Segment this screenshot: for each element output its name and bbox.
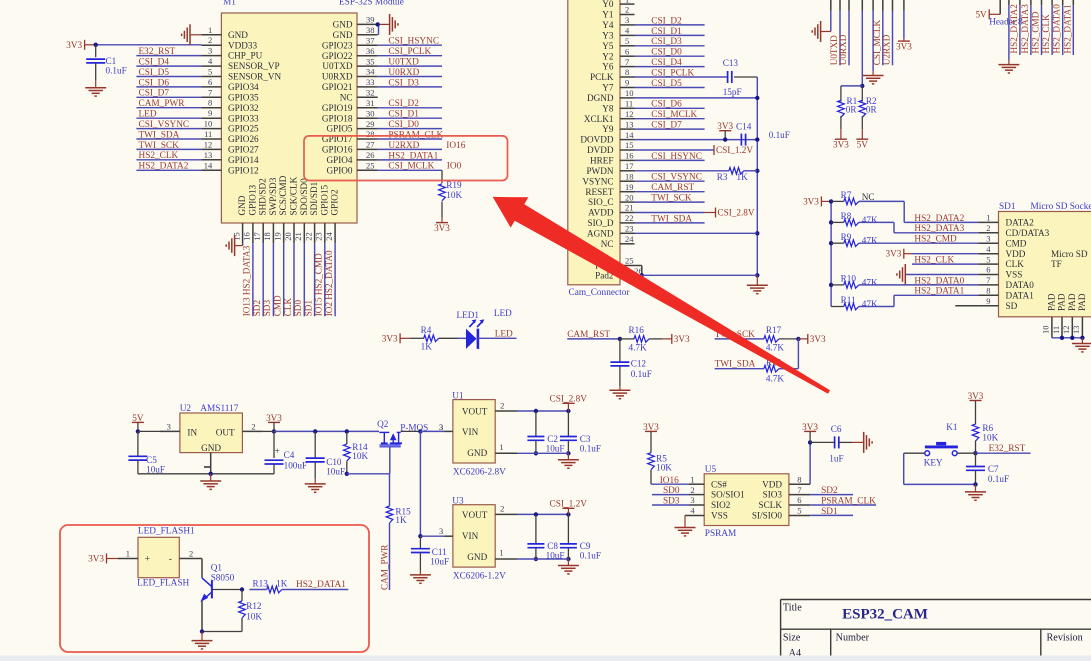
svg-text:DATA2: DATA2 [1006, 218, 1035, 228]
node junction 5V/C5 [136, 429, 140, 433]
svg-text:LED: LED [494, 308, 512, 318]
wire ground bus under U2 [138, 473, 274, 475]
transistor Q2 P-MOS [377, 419, 443, 474]
node junction C12 [618, 337, 622, 341]
svg-text:7: 7 [625, 57, 629, 67]
svg-text:CMD: CMD [273, 295, 283, 316]
svg-text:C13: C13 [723, 58, 739, 68]
svg-text:4: 4 [208, 56, 213, 66]
svg-text:U2RXD: U2RXD [882, 34, 892, 65]
svg-text:10: 10 [204, 119, 213, 129]
node junction R17/R18 [796, 337, 800, 341]
svg-text:CSI_D1: CSI_D1 [651, 27, 682, 37]
node junction C10 [313, 429, 317, 433]
svg-text:1K: 1K [395, 515, 407, 525]
wire CAM_RST [567, 330, 620, 340]
svg-text:CS#: CS# [711, 479, 727, 489]
power 3V3 at camera DOVDD [717, 121, 733, 142]
node junction K1 [973, 451, 977, 455]
node junction Q1 base [240, 587, 244, 591]
capacitor C9 0.1uF [560, 514, 601, 560]
node junction U5 vdd [808, 440, 812, 444]
svg-text:GND: GND [201, 443, 221, 453]
svg-text:3: 3 [986, 233, 990, 243]
svg-text:35: 35 [366, 56, 375, 66]
svg-text:DGND: DGND [587, 93, 614, 103]
svg-text:3V3: 3V3 [810, 334, 826, 344]
svg-text:U2: U2 [180, 404, 192, 414]
svg-text:SENSOR_VP: SENSOR_VP [228, 61, 280, 71]
svg-text:7: 7 [797, 485, 801, 495]
node junctions U1 out [534, 409, 571, 456]
stub SD pin9 [955, 305, 978, 307]
svg-text:U3: U3 [452, 497, 464, 507]
svg-text:3V3: 3V3 [266, 413, 282, 423]
svg-text:47K: 47K [862, 299, 878, 309]
svg-text:HS2_CLK: HS2_CLK [139, 151, 179, 161]
svg-text:3V3: 3V3 [885, 249, 901, 259]
svg-text:5: 5 [208, 67, 212, 77]
svg-text:R7: R7 [841, 190, 852, 200]
svg-text:30: 30 [366, 108, 375, 118]
capacitor C5 10uF [128, 431, 165, 474]
ground at M1 pin15 [226, 235, 242, 256]
ground below C10 [305, 478, 326, 492]
M1 left pin names and numbers [201, 25, 281, 176]
svg-text:16: 16 [625, 151, 634, 161]
svg-text:10K: 10K [446, 190, 462, 200]
svg-text:PAD: PAD [1057, 293, 1067, 311]
svg-text:Micro SD Socket: Micro SD Socket [1031, 202, 1091, 212]
svg-text:CSI_2.8V: CSI_2.8V [718, 208, 755, 218]
svg-text:6: 6 [625, 46, 629, 56]
svg-text:3V3: 3V3 [434, 223, 450, 233]
svg-text:PAD: PAD [1067, 293, 1077, 311]
svg-text:GND: GND [237, 195, 247, 215]
wires bottom net labels of M1 [242, 243, 335, 316]
wire SD1 [810, 507, 853, 517]
svg-text:Y2: Y2 [602, 51, 614, 61]
svg-text:19: 19 [625, 182, 634, 192]
svg-text:CAM_PWR: CAM_PWR [379, 544, 389, 590]
svg-text:HS2_DATA1: HS2_DATA1 [1062, 4, 1072, 54]
svg-text:3V3: 3V3 [968, 391, 984, 401]
svg-text:3V3: 3V3 [896, 41, 912, 51]
svg-text:HS2_DATA2: HS2_DATA2 [139, 162, 189, 172]
resistor R11 47K [831, 287, 978, 310]
resistor R6 10K [972, 404, 998, 453]
svg-text:GPIO18: GPIO18 [322, 113, 353, 123]
resistor R1 0R [838, 86, 863, 129]
svg-text:0.1uF: 0.1uF [631, 369, 652, 379]
svg-text:CSI_D3: CSI_D3 [651, 37, 682, 47]
svg-text:Y4: Y4 [602, 20, 614, 30]
svg-text:VOUT: VOUT [462, 407, 488, 417]
power 5V at U2 input [132, 421, 144, 423]
svg-text:10K: 10K [246, 612, 262, 622]
wire AGND pin23 [635, 232, 758, 234]
svg-text:HS2_CLK: HS2_CLK [914, 256, 954, 266]
svg-text:Y8: Y8 [602, 103, 614, 113]
svg-text:4: 4 [690, 506, 695, 516]
svg-text:HS2_DATA2: HS2_DATA2 [1009, 4, 1019, 54]
svg-text:7: 7 [986, 275, 990, 285]
svg-text:R10: R10 [841, 274, 857, 284]
svg-text:CLK: CLK [1006, 259, 1025, 269]
wire pad gnd bus [1052, 336, 1085, 340]
svg-text:1K: 1K [421, 342, 433, 352]
svg-text:SD2: SD2 [821, 486, 838, 496]
svg-text:TWI_SDA: TWI_SDA [715, 360, 756, 370]
svg-text:4.7K: 4.7K [766, 342, 784, 352]
svg-text:SCK/CLK: SCK/CLK [289, 176, 299, 215]
ground at header wire1 [812, 21, 831, 42]
svg-text:0.1uF: 0.1uF [988, 474, 1009, 484]
svg-text:39: 39 [366, 15, 375, 25]
svg-text:GND: GND [467, 448, 487, 458]
svg-text:3V3: 3V3 [66, 40, 82, 50]
ground at header wire5 [863, 71, 884, 84]
pushbutton K1 KEY [904, 422, 976, 467]
power 3V3 below R1 [835, 138, 847, 140]
wire E32_RST [976, 444, 1031, 454]
wires header8 verticals [1009, 0, 1073, 60]
svg-text:LED_FLASH: LED_FLASH [137, 578, 189, 588]
svg-text:Y6: Y6 [602, 62, 614, 72]
svg-text:3V3: 3V3 [833, 139, 849, 149]
svg-text:KEY: KEY [924, 457, 943, 467]
ground right of C6 [863, 432, 865, 453]
svg-text:29: 29 [366, 119, 375, 129]
svg-text:GPIO34: GPIO34 [228, 82, 259, 92]
svg-text:3V3: 3V3 [88, 554, 104, 564]
svg-text:HS2_DATA0: HS2_DATA0 [914, 276, 964, 286]
svg-text:CSI_D4: CSI_D4 [651, 58, 682, 68]
svg-text:GPIO0: GPIO0 [326, 165, 352, 175]
svg-text:9: 9 [208, 108, 212, 118]
svg-text:SENSOR_VN: SENSOR_VN [228, 72, 281, 82]
ground below C12 [609, 386, 630, 399]
svg-text:GND: GND [333, 30, 353, 40]
capacitor C2 10uF [527, 411, 564, 454]
svg-text:VDD33: VDD33 [228, 40, 257, 50]
wire Pad pins 25/26 [635, 266, 758, 278]
svg-text:0R: 0R [866, 105, 878, 115]
svg-text:SD1: SD1 [999, 202, 1016, 212]
ground at SD VSS [897, 264, 979, 285]
ground at M1 pin1 [182, 24, 202, 45]
wire PSRAM_CLK [810, 497, 876, 507]
svg-text:R12: R12 [246, 601, 262, 611]
svg-text:C12: C12 [631, 359, 647, 369]
resistor R2 0R [859, 86, 877, 129]
svg-text:1: 1 [208, 25, 212, 35]
svg-text:HS2_CMD: HS2_CMD [914, 235, 957, 245]
svg-text:CSI_VSYNC: CSI_VSYNC [139, 120, 190, 130]
svg-text:2: 2 [500, 504, 504, 514]
svg-text:C8: C8 [547, 541, 558, 551]
svg-text:CAM_PWR: CAM_PWR [139, 99, 186, 109]
svg-text:15: 15 [625, 140, 634, 150]
svg-text:12: 12 [204, 139, 213, 149]
svg-text:1: 1 [126, 548, 130, 558]
svg-text:M1: M1 [223, 0, 236, 8]
svg-text:TWI_SCK: TWI_SCK [139, 141, 180, 151]
svg-text:-: - [169, 555, 172, 565]
svg-text:C7: C7 [988, 464, 999, 474]
svg-text:Number: Number [836, 633, 870, 644]
svg-text:GPIO4: GPIO4 [326, 155, 352, 165]
regulator U1 XC6206-2.8V body [439, 392, 517, 478]
svg-text:10K: 10K [982, 433, 998, 443]
svg-text:SIO3: SIO3 [763, 490, 783, 500]
wire HS2_CLK [912, 256, 978, 266]
svg-text:SO/SIO1: SO/SIO1 [711, 490, 745, 500]
svg-text:3V3: 3V3 [643, 422, 659, 432]
svg-text:HS2_DATA3: HS2_DATA3 [914, 224, 964, 234]
svg-text:GPIO35: GPIO35 [228, 92, 259, 102]
svg-text:CSI_D6: CSI_D6 [651, 100, 682, 110]
svg-text:1uF: 1uF [829, 454, 843, 464]
svg-text:S8050: S8050 [211, 572, 235, 582]
svg-text:R4: R4 [421, 325, 432, 335]
svg-text:ESP-32S Module: ESP-32S Module [339, 0, 404, 8]
ground below C3 [558, 453, 579, 468]
svg-text:22: 22 [303, 232, 313, 241]
LED LED1 [457, 308, 513, 349]
svg-text:U0TXD: U0TXD [322, 61, 352, 71]
svg-text:IO16: IO16 [446, 141, 465, 151]
resistor R18 4.7K [764, 339, 799, 384]
svg-text:AVDD: AVDD [588, 208, 614, 218]
resistor R17 4.7K [764, 325, 799, 352]
svg-text:GPIO2: GPIO2 [330, 189, 340, 215]
wires programming header verticals [831, 0, 904, 86]
svg-text:Y3: Y3 [602, 31, 614, 41]
svg-text:LED: LED [495, 330, 513, 340]
node junction R14 bottom [345, 472, 349, 476]
svg-text:GPIO21: GPIO21 [322, 82, 353, 92]
svg-text:GPIO32: GPIO32 [228, 103, 259, 113]
svg-text:E32_RST: E32_RST [139, 47, 176, 57]
svg-text:TWI_SCK: TWI_SCK [651, 194, 692, 204]
svg-text:6: 6 [986, 265, 990, 275]
svg-text:1K: 1K [276, 578, 288, 588]
ground at U5 VSS [675, 515, 696, 536]
svg-text:23: 23 [625, 224, 634, 234]
svg-text:32: 32 [366, 88, 375, 98]
svg-text:PWDN: PWDN [586, 166, 613, 176]
svg-text:17: 17 [625, 161, 634, 171]
svg-text:R8: R8 [841, 211, 852, 221]
svg-text:5: 5 [986, 254, 990, 264]
resistor R8 47K [831, 211, 978, 234]
svg-text:SIO_D: SIO_D [587, 218, 613, 228]
wire drain to U3 VIN [419, 431, 421, 536]
svg-text:1K: 1K [737, 172, 749, 182]
svg-text:3V3: 3V3 [717, 121, 733, 131]
svg-text:CSI_D5: CSI_D5 [139, 68, 170, 78]
svg-text:HS2_DATA3: HS2_DATA3 [1020, 4, 1030, 54]
svg-text:SCLK: SCLK [759, 500, 783, 510]
power 3V3 at K1 [970, 400, 982, 402]
node junctions U3 out [534, 512, 571, 561]
capacitor C3 0.1uF [560, 411, 601, 454]
capacitor C4 100uF polarized [265, 431, 308, 473]
svg-text:GND: GND [333, 20, 353, 30]
svg-text:13: 13 [204, 150, 213, 160]
svg-text:SWP/SD3: SWP/SD3 [268, 177, 278, 215]
wire TWI_SCK [715, 330, 764, 340]
wire TWI_SDA [715, 360, 764, 370]
camera connector P2 body [568, 0, 620, 285]
svg-text:22: 22 [625, 213, 634, 223]
svg-text:10uF: 10uF [546, 444, 565, 454]
regulator U2 AMS1117 body [160, 404, 262, 474]
wire U3 GND bus [517, 558, 568, 560]
svg-text:C2: C2 [547, 434, 558, 444]
svg-text:R16: R16 [629, 325, 645, 335]
svg-text:1: 1 [690, 474, 694, 484]
node junction Q2 drain [418, 429, 422, 433]
svg-text:HS2_DATA1: HS2_DATA1 [914, 287, 964, 297]
svg-text:10: 10 [1041, 326, 1051, 335]
svg-text:Title: Title [783, 603, 802, 614]
svg-text:3V3: 3V3 [674, 334, 690, 344]
svg-text:VSYNC: VSYNC [582, 176, 613, 186]
svg-text:15: 15 [231, 232, 241, 241]
power 5V below R2 [856, 138, 868, 140]
svg-text:+: + [145, 555, 150, 565]
LED_FLASH1 body [118, 527, 202, 589]
svg-text:Revision: Revision [1047, 633, 1083, 644]
red highlight box around GPIO17/16/4/0 [304, 136, 508, 181]
svg-text:VIN: VIN [462, 427, 479, 437]
power 3V3 at U2 output [268, 421, 280, 423]
svg-text:2: 2 [690, 485, 694, 495]
resistor R10 47K [831, 274, 978, 289]
svg-text:CSI_D5: CSI_D5 [651, 79, 682, 89]
svg-text:GPIO26: GPIO26 [228, 134, 259, 144]
svg-text:CSI_MCLK: CSI_MCLK [651, 110, 697, 120]
ground below camera bus [747, 275, 768, 293]
svg-text:C10: C10 [326, 457, 342, 467]
svg-text:23: 23 [314, 232, 324, 241]
resistor R13 1K [249, 578, 348, 592]
svg-text:GPIO13: GPIO13 [247, 184, 257, 215]
transistor Q1 S8050 [200, 559, 242, 632]
svg-text:C4: C4 [284, 450, 295, 460]
svg-text:3V3: 3V3 [802, 422, 818, 432]
svg-text:CSI_HSYNC: CSI_HSYNC [651, 152, 702, 162]
svg-text:GPIO16: GPIO16 [322, 145, 353, 155]
svg-text:VDD: VDD [1006, 249, 1026, 259]
wire 3V3 rail [262, 430, 274, 432]
ground below Q1 [192, 632, 213, 650]
svg-text:25: 25 [366, 161, 375, 171]
svg-text:27: 27 [366, 140, 375, 150]
power 3V3 below R19 [436, 222, 448, 224]
svg-text:Y5: Y5 [602, 41, 614, 51]
svg-text:E32_RST: E32_RST [989, 444, 1026, 454]
svg-text:3V3: 3V3 [382, 333, 398, 343]
node junction R14 [345, 429, 349, 433]
ground below pads [1072, 338, 1091, 352]
svg-text:IO16: IO16 [660, 476, 679, 486]
svg-text:NC: NC [601, 239, 614, 249]
SD1 pin names numbers stubs [978, 213, 1087, 311]
svg-text:21: 21 [625, 203, 634, 213]
svg-text:CSI_HSYNC: CSI_HSYNC [388, 37, 439, 47]
svg-text:SHD/SD2: SHD/SD2 [258, 178, 268, 216]
wire SD3 [652, 496, 689, 506]
svg-text:11: 11 [1051, 326, 1061, 334]
red callout arrow [493, 197, 830, 394]
svg-text:IN: IN [187, 427, 197, 437]
svg-text:8: 8 [986, 286, 990, 296]
wire IO16 to CS# [651, 476, 689, 486]
ESP-32S module U M1 body [221, 13, 357, 223]
svg-text:9: 9 [625, 78, 629, 88]
svg-text:CSI_D7: CSI_D7 [651, 121, 682, 131]
wire R14 to gate [347, 473, 390, 475]
svg-text:1: 1 [986, 213, 990, 223]
wire U5 VDD to 3V3 [809, 442, 811, 484]
svg-text:DVDD: DVDD [587, 145, 614, 155]
svg-text:38: 38 [366, 25, 375, 35]
svg-text:CSI_D0: CSI_D0 [651, 48, 682, 58]
svg-text:9: 9 [986, 296, 990, 306]
PSRAM U5 body [685, 465, 810, 539]
svg-text:21: 21 [293, 232, 303, 241]
svg-text:PSRAM_CLK: PSRAM_CLK [821, 497, 876, 507]
svg-text:HREF: HREF [590, 156, 614, 166]
svg-text:PAD: PAD [1046, 293, 1056, 311]
svg-text:R13: R13 [253, 578, 269, 588]
svg-text:VDD: VDD [762, 479, 782, 489]
svg-text:GPIO33: GPIO33 [228, 113, 259, 123]
svg-text:HS2_CMD: HS2_CMD [1031, 11, 1041, 53]
svg-text:SD3: SD3 [663, 496, 680, 506]
power 3V3 at M1 pin2 [66, 40, 201, 50]
svg-text:HS2_DATA0: HS2_DATA0 [1052, 4, 1062, 54]
capacitor C10 10uF [306, 431, 345, 478]
svg-text:11: 11 [625, 99, 633, 109]
svg-text:Y7: Y7 [602, 83, 614, 93]
wire SD2 [810, 486, 853, 496]
svg-text:GPIO15: GPIO15 [319, 184, 329, 215]
svg-text:CSI_PCLK: CSI_PCLK [388, 47, 431, 57]
svg-text:PSRAM: PSRAM [705, 529, 737, 539]
svg-text:GPIO19: GPIO19 [322, 103, 353, 113]
svg-text:CHP_PU: CHP_PU [228, 51, 263, 61]
svg-text:13: 13 [625, 119, 634, 129]
svg-text:33: 33 [366, 77, 375, 87]
svg-text:3: 3 [690, 495, 694, 505]
svg-text:10K: 10K [656, 463, 672, 473]
svg-text:SD0: SD0 [293, 300, 303, 317]
svg-text:47K: 47K [862, 277, 878, 287]
svg-text:CSI_VSYNC: CSI_VSYNC [651, 173, 702, 183]
svg-text:OUT: OUT [216, 427, 235, 437]
resistor R4 1K [421, 325, 466, 352]
camera connector pin names numbers stubs [580, 0, 642, 280]
svg-text:C9: C9 [580, 541, 591, 551]
svg-text:8: 8 [797, 474, 801, 484]
svg-text:CSI_1.2V: CSI_1.2V [716, 145, 753, 155]
capacitor C14 0.1uF [736, 122, 790, 146]
svg-text:VIN: VIN [462, 531, 479, 541]
